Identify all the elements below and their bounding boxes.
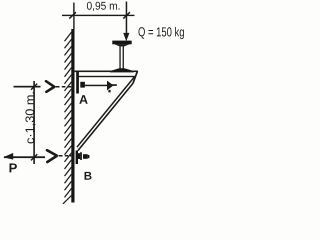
force Q arrowhead — [123, 33, 129, 42]
svg-text:B: B — [84, 171, 92, 183]
bracket top chord — [75, 71, 138, 73]
bolt at A — [80, 82, 85, 88]
rail web left line — [119, 46, 120, 70]
dimension line 0,95 m — [62, 15, 135, 16]
svg-text:Q = 150 kg: Q = 150 kg — [138, 24, 185, 39]
vertical dimension line — [33, 81, 35, 164]
bolt shaft at B — [78, 153, 80, 159]
tick right — [123, 12, 130, 18]
force Q line — [126, 2, 128, 34]
dashed rod at A level — [56, 86, 60, 88]
anchor symbol at B level — [47, 150, 57, 162]
tick left — [69, 12, 76, 18]
bolt head at B — [83, 154, 88, 159]
wall hatching — [63, 32, 72, 204]
force P line — [4, 156, 45, 158]
extension line above wall — [73, 3, 74, 30]
plate at B — [76, 151, 78, 165]
svg-text:0,95 m.: 0,95 m. — [86, 1, 120, 13]
bolt nut bar at B — [80, 152, 82, 160]
tick bottom of vertical dim — [31, 154, 37, 160]
tick top of vertical dim — [31, 84, 37, 90]
force arrow at A — [85, 85, 107, 87]
rail head — [112, 41, 131, 45]
anchor symbol at A level — [46, 81, 54, 92]
diagonal outer line — [133, 71, 138, 83]
left extension line at A level — [14, 86, 41, 88]
plate at A — [76, 72, 79, 94]
bracket bottom edge — [77, 76, 135, 77]
wall — [71, 29, 74, 203]
diagonal inner line — [77, 77, 135, 148]
dashed rod at B level — [59, 155, 63, 157]
rail foot — [110, 68, 134, 72]
rail web right line — [123, 46, 124, 70]
svg-text:A: A — [79, 93, 88, 107]
svg-text:c·1,30 m.: c·1,30 m. — [23, 91, 37, 144]
svg-text:P: P — [9, 160, 18, 175]
force P arrowhead — [3, 153, 13, 160]
